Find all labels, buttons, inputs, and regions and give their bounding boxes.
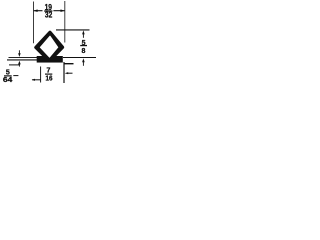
seal diamond bulb (outer) [36, 33, 62, 61]
dim 5/8 top leader line [56, 29, 90, 31]
dim 5/64 upper arrow (pointing down at flange top) [18, 50, 20, 54]
dim 7/16 right corner bar [64, 63, 74, 65]
dim 19/32 left arrowhead [34, 9, 38, 12]
dim 19/32 right arrowhead [61, 9, 65, 12]
dim 5/64 fraction bar [4, 75, 12, 76]
flange bottom line [7, 59, 38, 61]
dim 19/32 dimension line right segment [53, 10, 64, 12]
svg-text:8: 8 [81, 48, 85, 55]
dim 5/64 lower arrow (pointing up at flange bottom) [18, 61, 21, 65]
dim 7/16 left extension line [40, 67, 42, 83]
dim 19/32 dimension line left segment [34, 10, 43, 12]
svg-text:32: 32 [45, 10, 53, 19]
flange top line [9, 57, 39, 59]
dim 7/16 right arrow (pointing left at extension line) [65, 72, 69, 74]
dim 5/8 lower arrow (pointing up at baseline) [82, 58, 85, 62]
seal diamond bulb (inner white) [40, 36, 58, 57]
dim 7/16 right extension line [63, 62, 65, 83]
svg-text:16: 16 [46, 76, 53, 83]
dim 5/64 leader dash [13, 75, 18, 77]
seal foot (base bar) [37, 56, 63, 63]
dim 19/32 right extension line [64, 1, 66, 43]
dim 7/16 left arrow line [32, 79, 41, 81]
dim 19/32 left extension line [33, 2, 35, 44]
dim 5/8 fraction bar [80, 45, 87, 46]
dim 7/16 left arrowhead [32, 79, 35, 81]
svg-text:64: 64 [3, 77, 13, 84]
dim 7/16 fraction bar [45, 74, 52, 75]
dim 5/8 upper arrow (pointing up) [82, 32, 84, 38]
dim 5/8 baseline [63, 57, 96, 59]
dim 19/32 fraction bar [44, 10, 52, 11]
short reference line left of lower arrow [9, 64, 20, 66]
